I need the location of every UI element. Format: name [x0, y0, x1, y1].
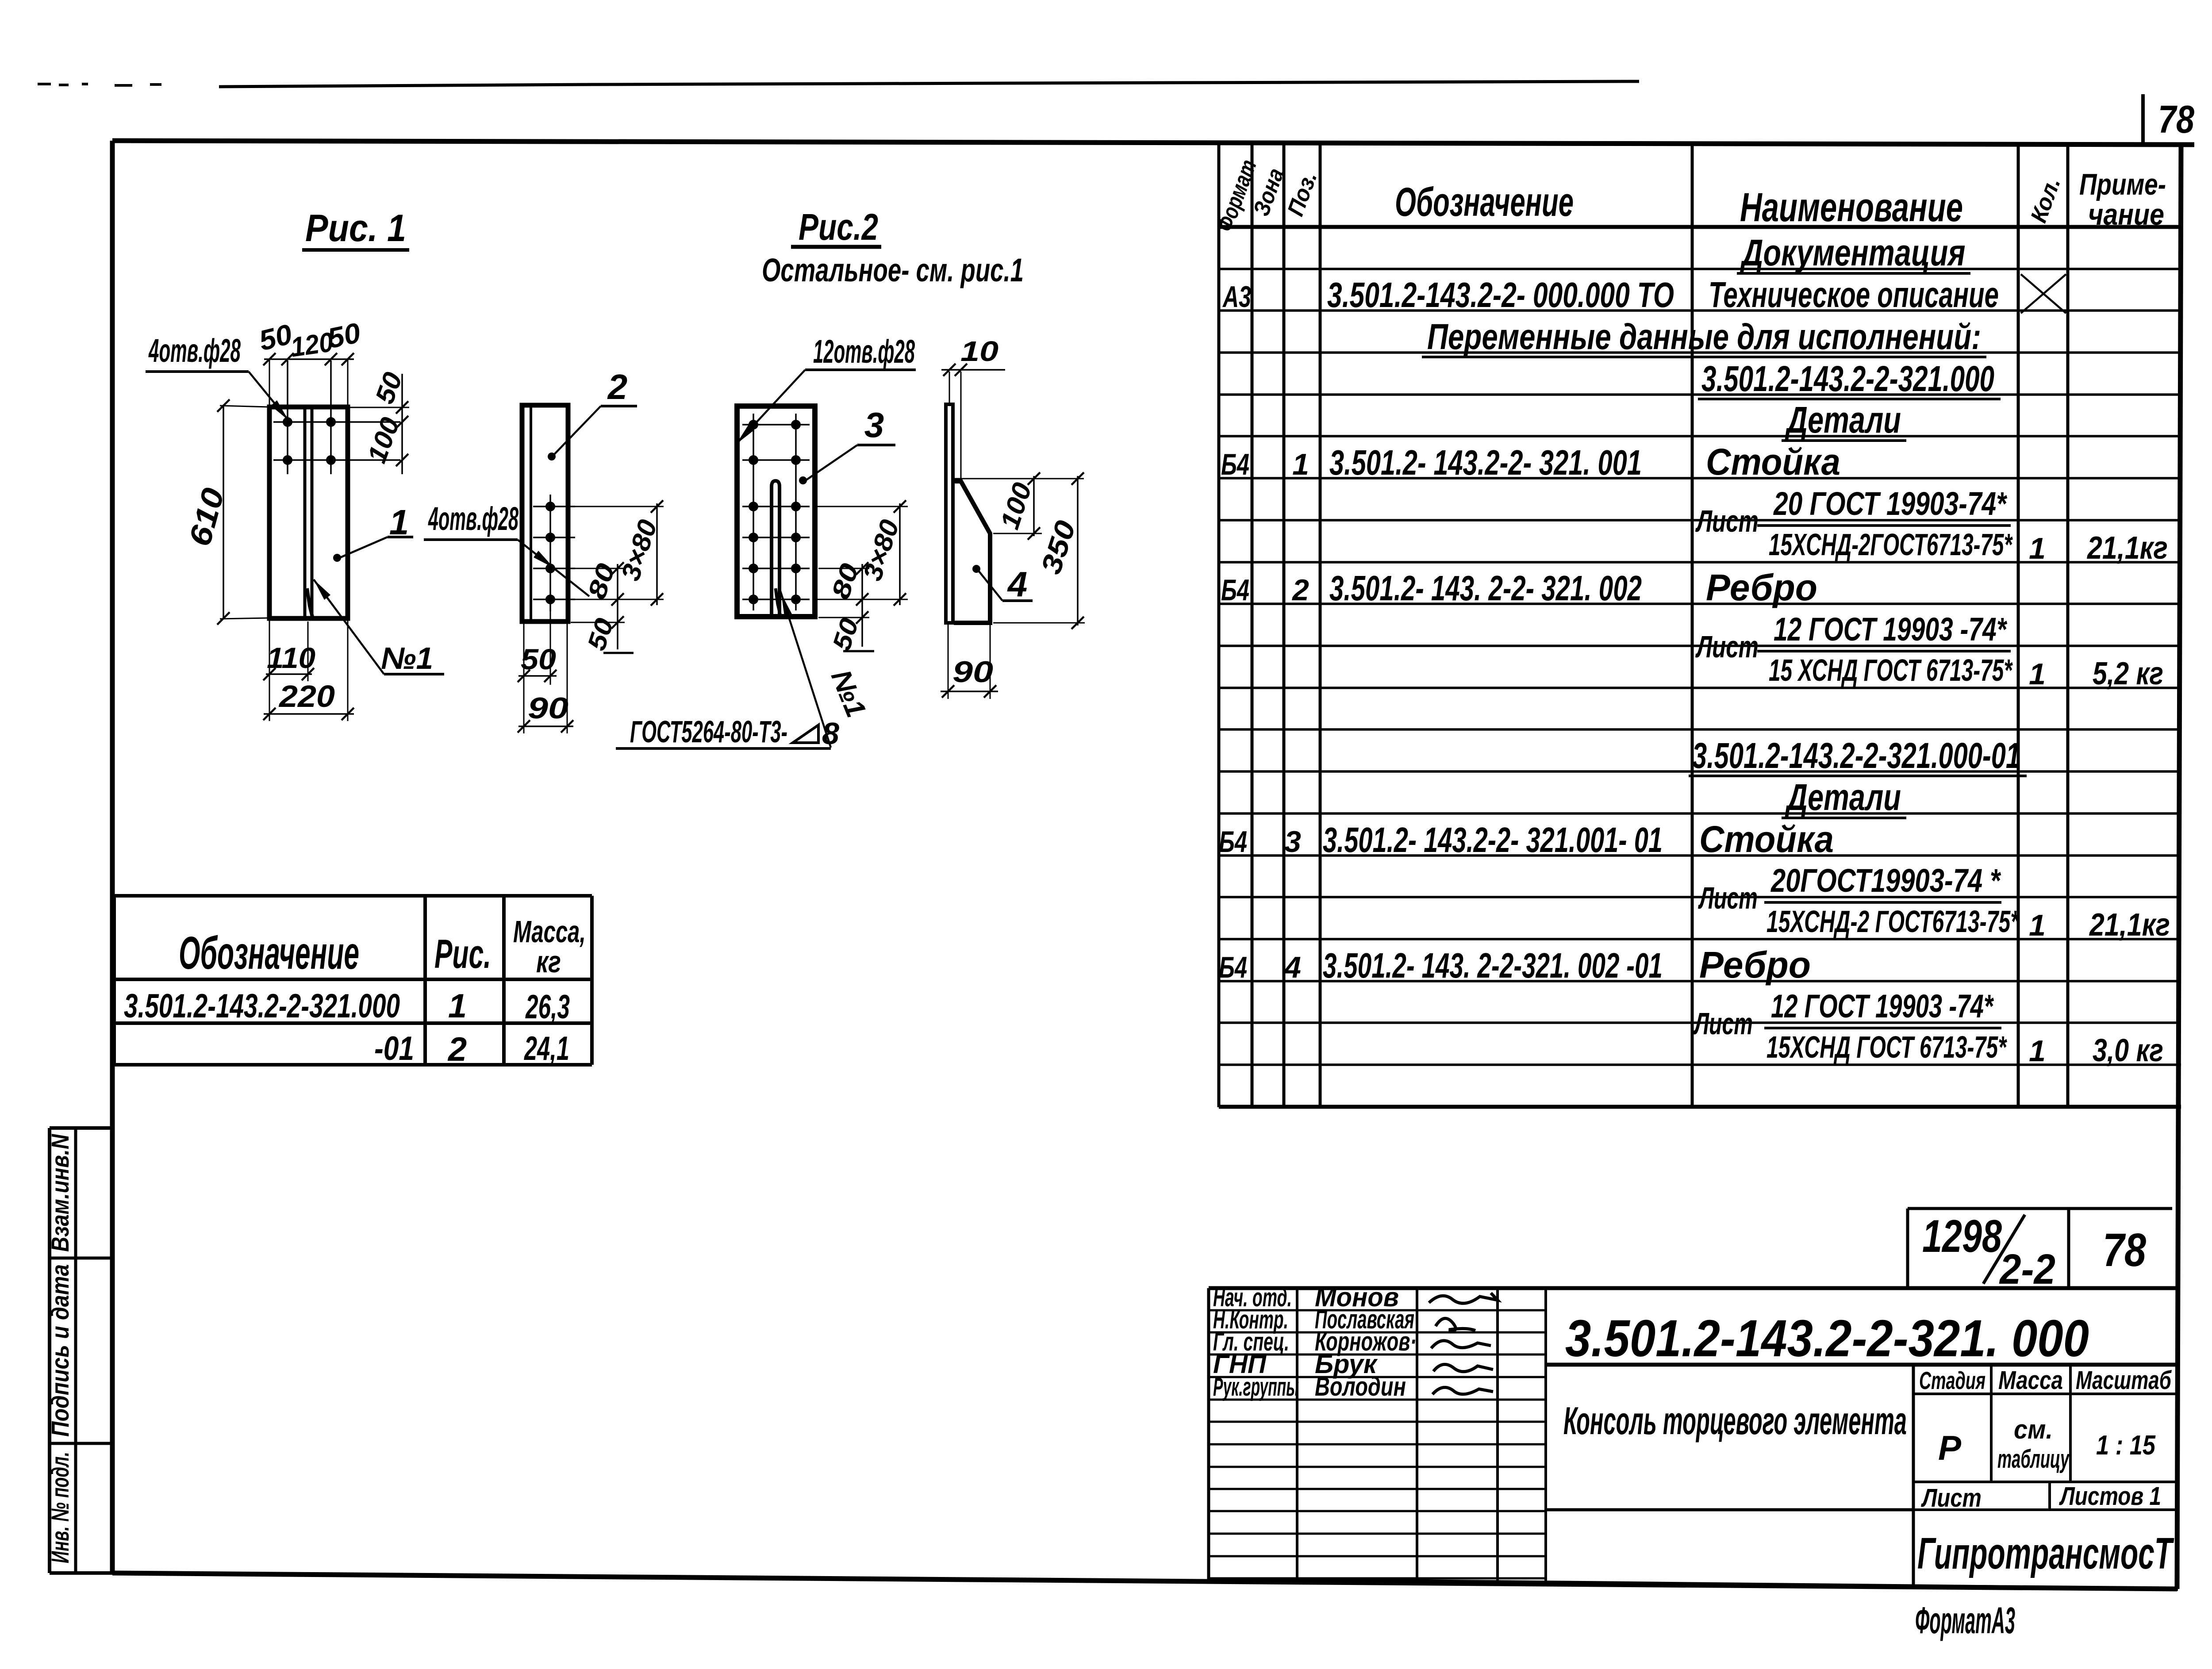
svg-text:Обозначение: Обозначение [1395, 180, 1574, 225]
svg-text:15ХСНД ГОСТ 6713-75*: 15ХСНД ГОСТ 6713-75* [1767, 1030, 2007, 1064]
title block outer [1209, 1286, 2178, 1290]
svg-text:50: 50 [521, 643, 556, 675]
plate 1 hole centerlines vertical [287, 361, 288, 474]
svg-text:Детали: Детали [1785, 399, 1901, 441]
plate 4 rib profile [954, 481, 990, 623]
svg-text:Лист: Лист [1698, 881, 1758, 915]
dimension 50 below plate 2 [523, 623, 525, 685]
plate 2 hole centerline vertical [549, 495, 551, 611]
signatures squiggles [1429, 1293, 1498, 1303]
title block signature columns [1296, 1288, 1298, 1580]
left margin table frame [50, 1126, 113, 1130]
plate 3 hole centerlines vertical [753, 414, 754, 610]
svg-text:4отв.ф28: 4отв.ф28 [148, 332, 241, 369]
plate 3 slot [772, 481, 780, 617]
svg-text:12отв.ф28: 12отв.ф28 [813, 333, 915, 370]
spec table columns [1217, 142, 1221, 1107]
title block doc number box [1546, 1363, 2178, 1367]
scan artifact long top line [219, 81, 1639, 87]
svg-text:Приме-: Приме- [2079, 168, 2166, 201]
page number bar [2141, 94, 2145, 146]
svg-text:Остальное- см. рис.1: Остальное- см. рис.1 [762, 252, 1024, 288]
plate 3 outline [737, 406, 815, 617]
svg-text:Детали: Детали [1785, 776, 1901, 818]
svg-text:Рис.2: Рис.2 [799, 206, 878, 248]
plate 2 hole centerlines horizontal [533, 506, 575, 507]
svg-text:20ГОСТ19903-74 *: 20ГОСТ19903-74 * [1770, 862, 2001, 899]
svg-text:Ребро: Ребро [1699, 944, 1811, 986]
svg-text:21,1кг: 21,1кг [2086, 530, 2168, 566]
frame left [110, 141, 115, 1573]
svg-text:Лист: Лист [1693, 1006, 1753, 1041]
svg-text:10: 10 [960, 335, 998, 367]
svg-text:15ХСНД-2ГОСТ6713-75*: 15ХСНД-2ГОСТ6713-75* [1769, 527, 2013, 562]
svg-text:Б4: Б4 [1221, 573, 1249, 607]
svg-text:кг: кг [536, 944, 561, 979]
dimension 50-120-50 top of plate 1 [264, 358, 354, 360]
svg-text:3: 3 [1284, 825, 1301, 859]
svg-text:Ребро: Ребро [1706, 567, 1817, 608]
svg-text:Б4: Б4 [1219, 951, 1247, 984]
svg-text:4: 4 [1007, 564, 1028, 604]
svg-text:Стойка: Стойка [1706, 441, 1840, 483]
dimension 90 below plate 4 [948, 625, 949, 699]
dimension 100 (fig2 right) [955, 478, 1084, 480]
order number box [1908, 1207, 2172, 1210]
svg-text:Володин: Володин [1315, 1372, 1406, 1401]
svg-text:2-2: 2-2 [1999, 1246, 2055, 1293]
svg-text:Инв. № подл.: Инв. № подл. [46, 1452, 74, 1563]
title block signature rows [1209, 1309, 1546, 1312]
svg-text:1: 1 [2029, 909, 2046, 942]
svg-text:№1: №1 [381, 641, 433, 675]
svg-text:Обозначение: Обозначение [179, 928, 359, 979]
svg-text:Рис.: Рис. [434, 932, 491, 977]
svg-text:Переменные данные для испол: Переменные данные для исполнений: [1427, 317, 1981, 357]
svg-text:Документация: Документация [1740, 232, 1966, 273]
svg-text:220: 220 [278, 679, 335, 714]
svg-text:Масштаб: Масштаб [2076, 1366, 2172, 1395]
svg-text:Р: Р [1938, 1428, 1962, 1467]
svg-text:5,2 кг: 5,2 кг [2093, 656, 2163, 691]
svg-text:4отв.ф28: 4отв.ф28 [428, 500, 519, 537]
dimension 50 below-right of plate 2 [571, 622, 625, 623]
svg-text:Масса: Масса [1998, 1366, 2063, 1395]
svg-text:-01: -01 [374, 1030, 414, 1067]
spec table horizontal lines [1219, 225, 2181, 229]
svg-text:3,0 кг: 3,0 кг [2093, 1033, 2163, 1068]
svg-text:Консоль торцевого элемента: Консоль торцевого элемента [1563, 1399, 1907, 1443]
svg-text:2: 2 [607, 367, 628, 407]
svg-text:Наименование: Наименование [1740, 185, 1963, 230]
svg-text:3.501.2-143.2-2-321. 000: 3.501.2-143.2-2-321. 000 [1565, 1309, 2089, 1368]
svg-text:12 ГОСТ 19903 -74*: 12 ГОСТ 19903 -74* [1771, 988, 1994, 1024]
svg-text:Стойка: Стойка [1699, 818, 1834, 860]
svg-text:см.: см. [2014, 1415, 2053, 1444]
svg-text:ГипротрансмосТ: ГипротрансмосТ [1917, 1529, 2174, 1578]
svg-text:А3: А3 [1222, 280, 1252, 314]
svg-text:Стадия: Стадия [1919, 1366, 1985, 1394]
svg-text:2: 2 [447, 1031, 467, 1068]
svg-text:Взам.инв.N: Взам.инв.N [46, 1134, 74, 1252]
svg-text:20 ГОСТ 19903-74*: 20 ГОСТ 19903-74* [1773, 485, 2007, 522]
scan artifact dashes top-left [38, 84, 161, 85]
svg-text:4: 4 [1283, 951, 1301, 984]
svg-text:12 ГОСТ 19903 -74*: 12 ГОСТ 19903 -74* [1774, 611, 2007, 648]
svg-text:Лист: Лист [1695, 504, 1759, 538]
svg-text:110: 110 [267, 641, 315, 674]
plate 1 rib edge lines [303, 408, 307, 618]
svg-text:Лист: Лист [1921, 1484, 1982, 1512]
svg-text:таблицу: таблицу [1997, 1445, 2070, 1473]
svg-text:26,3: 26,3 [525, 988, 570, 1026]
title block right grid [1912, 1365, 1915, 1587]
svg-text:15ХСНД-2 ГОСТ6713-75*: 15ХСНД-2 ГОСТ6713-75* [1767, 904, 2020, 939]
dimension 3x80 right of plate 2 [574, 506, 664, 507]
dimension 350 (fig2 right) [993, 622, 1085, 624]
svg-text:3.501.2-143.2-2-321.000: 3.501.2-143.2-2-321.000 [1701, 359, 1994, 399]
plate 1 outline [269, 407, 348, 618]
title block bottom edge [1209, 1579, 2178, 1589]
plate 2 outline [522, 405, 568, 622]
svg-text:1 : 15: 1 : 15 [2096, 1430, 2156, 1461]
dimension 50/100 right of plate 1 [401, 374, 403, 474]
svg-text:3.501.2- 143. 2-2-321. 002 -01: 3.501.2- 143. 2-2-321. 002 -01 [1323, 946, 1663, 985]
svg-text:3.501.2- 143.2-2- 321.001- 01: 3.501.2- 143.2-2- 321.001- 01 [1323, 820, 1663, 859]
small table frame [114, 894, 592, 898]
dimension 50 below-right of plate 3 [818, 617, 869, 618]
svg-text:Лист: Лист [1695, 629, 1759, 664]
plate 4 strip outline [946, 404, 953, 623]
svg-text:Техническое описание: Техническое описание [1709, 275, 1999, 315]
frame bottom [112, 1573, 2177, 1589]
frame right [2177, 145, 2181, 1589]
svg-text:3.501.2-143.2-2-321.000: 3.501.2-143.2-2-321.000 [124, 987, 400, 1025]
svg-text:1: 1 [2029, 532, 2046, 565]
svg-text:1: 1 [2029, 657, 2046, 691]
svg-text:Рис. 1: Рис. 1 [305, 207, 406, 249]
svg-text:Подпись и дата: Подпись и дата [46, 1264, 74, 1437]
svg-text:90: 90 [528, 691, 568, 725]
plate 2 inner edge line [530, 406, 532, 621]
svg-text:Рук.группы: Рук.группы [1213, 1373, 1299, 1401]
svg-text:78: 78 [2158, 97, 2194, 141]
svg-text:Б4: Б4 [1221, 448, 1249, 481]
svg-text:ФорматА3: ФорматА3 [1915, 1600, 2015, 1641]
slot weld leader No1 (fig2) [780, 588, 831, 748]
title block name box line [1546, 1508, 1913, 1512]
svg-text:Б4: Б4 [1219, 825, 1247, 859]
plate 3 holes [749, 420, 758, 430]
dimension 90 below plate 2 [523, 685, 525, 733]
svg-text:50: 50 [325, 317, 363, 355]
svg-text:24,1: 24,1 [524, 1030, 569, 1067]
dimension 610 left of plate 1 [223, 405, 224, 619]
svg-text:3.501.2- 143. 2-2- 321. 002: 3.501.2- 143. 2-2- 321. 002 [1329, 568, 1642, 608]
svg-text:1: 1 [1292, 448, 1309, 481]
dimension 110 below plate 1 [269, 619, 270, 721]
svg-text:Листов 1: Листов 1 [2059, 1482, 2161, 1511]
svg-text:2: 2 [1291, 573, 1309, 607]
svg-text:3.501.2-143.2-2-321.000-01: 3.501.2-143.2-2-321.000-01 [1692, 736, 2020, 776]
plate 3 hole centerlines horizontal [742, 424, 810, 426]
svg-text:90: 90 [952, 655, 993, 689]
svg-text:1: 1 [448, 987, 467, 1025]
plate 1 holes [283, 417, 292, 427]
svg-text:чание: чание [2088, 198, 2164, 231]
dimension 80 right of plate 3 [818, 568, 869, 569]
svg-text:1: 1 [2029, 1034, 2046, 1068]
svg-text:3.501.2- 143.2-2- 321. 001: 3.501.2- 143.2-2- 321. 001 [1329, 443, 1642, 482]
svg-text:Масса,: Масса, [513, 914, 586, 949]
dimension 10 top of plate 4 [949, 372, 950, 403]
plate 2 holes [545, 502, 555, 511]
svg-text:3.501.2-143.2-2- 000.000 ТО: 3.501.2-143.2-2- 000.000 ТО [1327, 275, 1674, 315]
plate 1 hole centerlines horizontal [273, 421, 400, 423]
frame top [112, 141, 2194, 145]
dimension 3x80 right of plate 3 [818, 506, 908, 507]
svg-text:21,1кг: 21,1кг [2089, 907, 2170, 943]
spec row 2 X mark in Kol column [2021, 274, 2066, 313]
svg-text:3: 3 [864, 405, 884, 445]
svg-text:ГОСТ5264-80-Т3-: ГОСТ5264-80-Т3- [630, 714, 787, 749]
svg-text:1298: 1298 [1922, 1211, 2002, 1262]
dimension 220 below plate 1 [347, 619, 349, 721]
svg-text:15 ХСНД ГОСТ 6713-75*: 15 ХСНД ГОСТ 6713-75* [1769, 653, 2013, 687]
svg-text:78: 78 [2103, 1224, 2146, 1276]
dimension 80 right of plate 2 [575, 568, 625, 569]
